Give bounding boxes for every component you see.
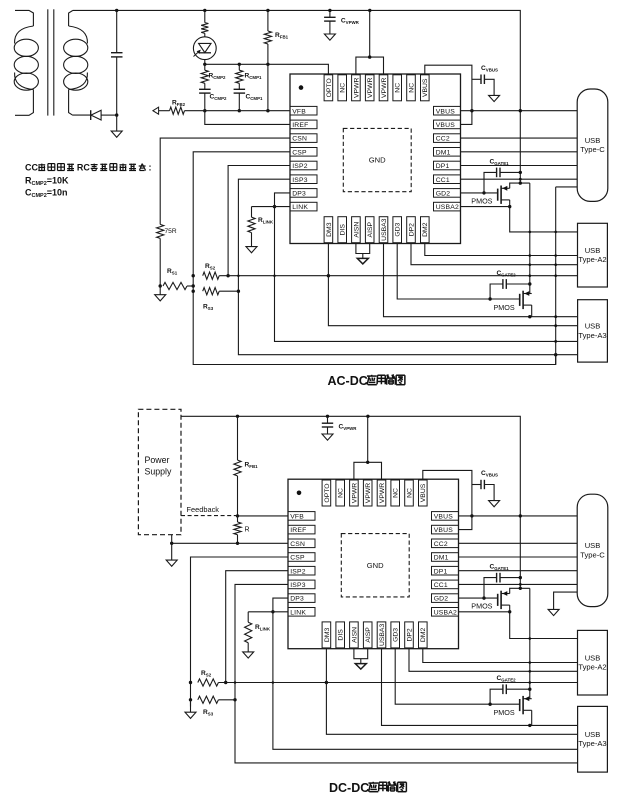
svg-text:RC: RC [77,163,90,173]
svg-text:PMOS: PMOS [494,303,515,312]
svg-text:Type-A2: Type-A2 [578,663,606,672]
svg-text:LINK: LINK [292,204,308,211]
svg-text:CC2: CC2 [436,136,450,143]
svg-text:AISN: AISN [351,627,358,643]
svg-text:VBUS: VBUS [420,483,427,502]
svg-text:VPWR: VPWR [367,78,374,98]
svg-text:DP1: DP1 [436,163,450,170]
svg-text:Type-A3: Type-A3 [578,331,606,340]
svg-text:VPWR: VPWR [365,483,372,503]
svg-text:Type-A3: Type-A3 [578,739,606,748]
svg-text:USBA3: USBA3 [379,624,386,647]
svg-text:USB: USB [585,654,601,663]
svg-text:NC: NC [393,488,400,498]
svg-text:USBA2: USBA2 [434,609,457,616]
svg-text:AC-DC: AC-DC [328,374,368,388]
svg-text:DIS: DIS [338,629,345,641]
svg-text:USB: USB [585,246,601,255]
svg-text:CC1: CC1 [434,582,448,589]
svg-text:LINK: LINK [290,609,306,616]
svg-text:NC: NC [395,83,402,93]
svg-text:Type-A2: Type-A2 [578,255,606,264]
svg-text:USB: USB [585,730,601,739]
svg-text:OPTO: OPTO [324,483,331,502]
svg-text:Type-C: Type-C [580,550,605,559]
svg-text:AISP: AISP [367,221,374,237]
svg-text:PMOS: PMOS [471,197,492,206]
svg-text:GD3: GD3 [395,222,402,236]
svg-text:DP3: DP3 [292,191,306,198]
svg-text:CSN: CSN [290,541,305,548]
svg-text:GD2: GD2 [434,596,449,603]
svg-text:OPTO: OPTO [326,78,333,97]
svg-text:ISP2: ISP2 [292,163,308,170]
svg-text:CSP: CSP [290,555,305,562]
svg-text:USBA3: USBA3 [381,218,388,241]
svg-text:GD3: GD3 [393,628,400,642]
svg-text:VBUS: VBUS [436,122,456,129]
svg-text:VPWR: VPWR [381,78,388,98]
svg-text:DM2: DM2 [420,628,427,643]
svg-text::: : [149,163,152,173]
svg-text:Power: Power [145,455,170,465]
svg-text:VBUS: VBUS [422,78,429,97]
svg-text:DM3: DM3 [324,628,331,643]
svg-text:DM1: DM1 [436,149,451,156]
svg-text:R: R [245,527,250,534]
svg-text:DC-DC: DC-DC [329,781,369,795]
svg-text:NC: NC [338,488,345,498]
svg-text:75R: 75R [165,228,177,235]
svg-text:Type-C: Type-C [580,145,605,154]
svg-text:VBUS: VBUS [434,527,454,534]
svg-text:CC: CC [25,163,38,173]
svg-text:USBA2: USBA2 [436,204,459,211]
svg-text:Feedback: Feedback [187,505,220,514]
svg-text:VPWR: VPWR [353,78,360,98]
svg-text:NC: NC [340,83,347,93]
svg-text:DP2: DP2 [408,223,415,236]
svg-text:VPWR: VPWR [379,483,386,503]
svg-text:VPWR: VPWR [351,483,358,503]
svg-text:ISP2: ISP2 [290,568,306,575]
svg-text:DM3: DM3 [326,222,333,237]
svg-text:PMOS: PMOS [471,602,492,611]
svg-text:VBUS: VBUS [434,514,454,521]
svg-text:IREF: IREF [290,527,306,534]
svg-text:AISN: AISN [353,222,360,238]
svg-text:AISP: AISP [365,627,372,643]
svg-text:DM2: DM2 [422,222,429,237]
svg-text:ISP3: ISP3 [290,582,306,589]
svg-text:IREF: IREF [292,122,308,129]
svg-text:GD2: GD2 [436,191,451,198]
svg-text:DP3: DP3 [290,596,304,603]
svg-text:PMOS: PMOS [494,708,515,717]
svg-text:USB: USB [585,541,601,550]
svg-text:USB: USB [585,322,601,331]
svg-text:DP1: DP1 [434,568,448,575]
svg-text:VFB: VFB [290,514,304,521]
svg-text:NC: NC [408,83,415,93]
svg-text:USB: USB [585,136,601,145]
svg-text:DP2: DP2 [406,628,413,641]
svg-text:VBUS: VBUS [436,108,456,115]
svg-text:DM1: DM1 [434,555,449,562]
svg-text:ISP3: ISP3 [292,177,308,184]
svg-text:DIS: DIS [340,224,347,236]
svg-text:NC: NC [406,488,413,498]
svg-text:CSP: CSP [292,149,307,156]
svg-text:GND: GND [369,156,386,165]
svg-text:VFB: VFB [292,108,306,115]
svg-text:CC1: CC1 [436,177,450,184]
svg-text:GND: GND [367,561,384,570]
svg-text:CSN: CSN [292,136,307,143]
svg-text:CC2: CC2 [434,541,448,548]
svg-text:Supply: Supply [145,467,172,477]
